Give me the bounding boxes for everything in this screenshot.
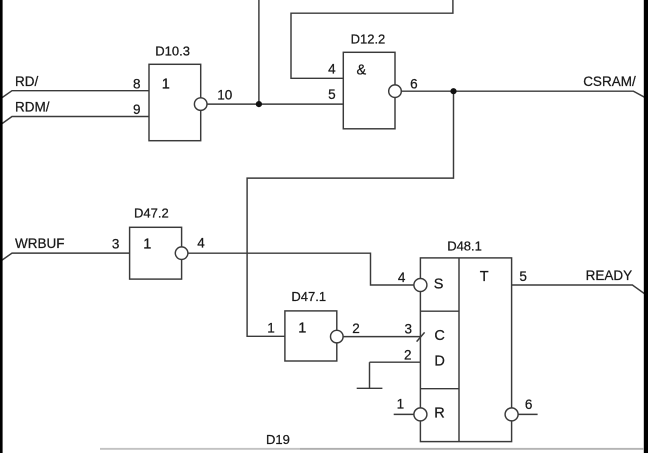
wire R input stub <box>394 413 414 415</box>
inversion bubble D47.1 output <box>331 330 344 343</box>
svg-text:6: 6 <box>525 397 533 412</box>
svg-text:1: 1 <box>397 396 405 411</box>
inversion bubble D12.2 output <box>389 85 402 98</box>
svg-text:5: 5 <box>328 87 336 102</box>
wire CSRAM/ output <box>401 91 645 98</box>
svg-text:10: 10 <box>217 88 232 103</box>
svg-text:D47.1: D47.1 <box>291 289 326 304</box>
svg-text:R: R <box>434 406 444 422</box>
svg-text:&: & <box>357 63 367 79</box>
wire D input <box>370 361 421 363</box>
svg-text:8: 8 <box>133 76 141 91</box>
inverter D47.1 <box>285 311 337 361</box>
wire pin 10 output to D12.2 pin 5 <box>207 103 343 105</box>
wire to top edge from node <box>258 0 260 104</box>
flip-flop D48.1 <box>420 258 511 442</box>
inverter D10.3 <box>149 64 201 140</box>
svg-text:3: 3 <box>112 236 120 251</box>
svg-text:2: 2 <box>352 321 360 336</box>
wire pin 6 stub <box>518 413 538 415</box>
svg-text:1: 1 <box>267 321 275 336</box>
svg-text:D19: D19 <box>266 432 290 447</box>
node junction pin10/pin5 <box>256 101 262 107</box>
inversion bubble D10.3 output <box>194 98 207 111</box>
svg-text:2: 2 <box>404 347 412 362</box>
nand gate D12.2 <box>343 52 395 129</box>
svg-text:RD/: RD/ <box>15 74 38 89</box>
svg-text:1: 1 <box>143 236 151 252</box>
node junction CSRAM branch <box>450 88 456 94</box>
svg-text:9: 9 <box>133 102 141 117</box>
svg-text:D10.3: D10.3 <box>155 44 190 59</box>
svg-text:4: 4 <box>328 62 336 77</box>
wire S net from D47.2 output <box>188 253 414 285</box>
svg-text:D12.2: D12.2 <box>351 31 386 46</box>
inversion bubble S input <box>414 279 427 292</box>
svg-text:5: 5 <box>519 269 527 284</box>
svg-text:D47.2: D47.2 <box>134 206 169 221</box>
svg-text:D48.1: D48.1 <box>447 239 482 254</box>
svg-text:1: 1 <box>162 76 170 92</box>
svg-text:T: T <box>480 269 489 285</box>
ground <box>357 387 383 389</box>
svg-text:4: 4 <box>398 270 406 285</box>
dynamic input marker slash at C <box>417 332 425 341</box>
svg-text:D: D <box>434 354 444 370</box>
wire RDM/ <box>2 117 150 125</box>
svg-text:WRBUF: WRBUF <box>15 236 65 251</box>
wire READY output <box>512 285 646 295</box>
svg-text:6: 6 <box>410 76 418 91</box>
wire WRBUF <box>2 253 130 260</box>
svg-text:S: S <box>434 276 444 292</box>
wire C net: junction down, left, down to D47.1 input <box>247 91 453 336</box>
inverter D47.2 <box>130 227 182 279</box>
svg-text:3: 3 <box>404 322 412 337</box>
wire D47.1 output to C input <box>343 336 420 338</box>
inversion bubble pin 6 output <box>505 408 518 421</box>
svg-text:READY: READY <box>586 268 633 283</box>
svg-text:CSRAM/: CSRAM/ <box>583 74 636 89</box>
svg-text:RDM/: RDM/ <box>15 100 50 115</box>
inversion bubble D47.2 output <box>175 247 188 260</box>
svg-text:C: C <box>434 328 444 344</box>
svg-text:4: 4 <box>197 236 205 251</box>
svg-text:1: 1 <box>298 321 306 337</box>
wire pin 4 net from top edge <box>291 0 453 78</box>
inversion bubble R input <box>414 408 427 421</box>
wire ground stub <box>369 362 371 388</box>
wire RD/ <box>2 91 150 98</box>
